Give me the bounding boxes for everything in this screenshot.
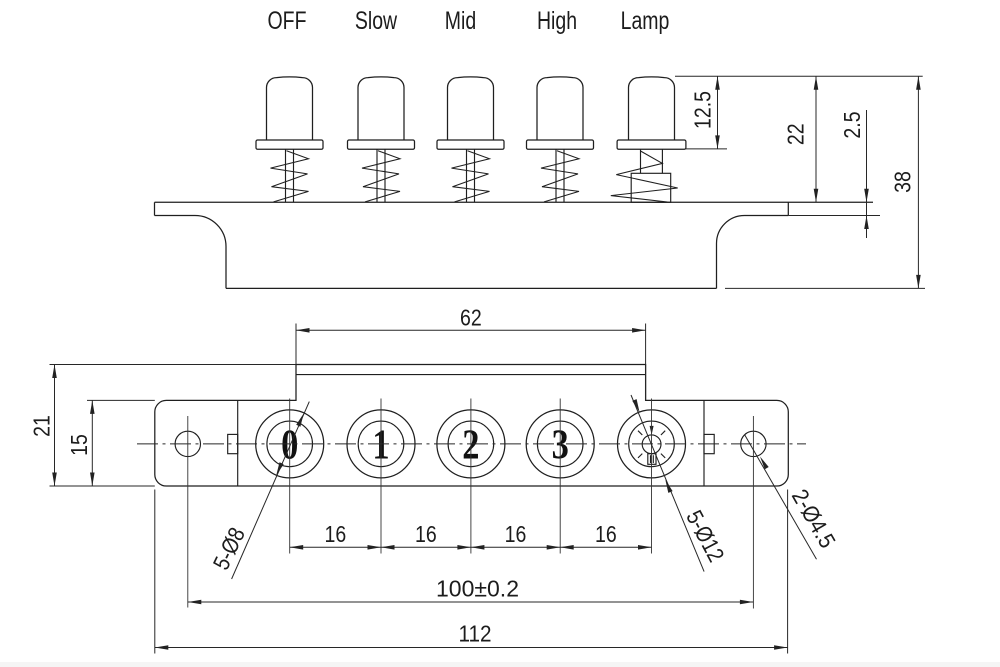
button Slow inner circle xyxy=(358,421,404,467)
extension line flange bottom xyxy=(686,148,727,150)
numeral 2 xyxy=(462,422,479,468)
footer strip xyxy=(0,662,1000,667)
numeral 1 xyxy=(372,422,389,468)
numeral 0 xyxy=(281,422,298,468)
numeral 3 xyxy=(552,422,569,468)
button Lamp inner circle xyxy=(629,421,675,467)
plate left end xyxy=(155,202,196,215)
button Slow flange xyxy=(348,140,415,149)
extension line plate bottom right xyxy=(788,215,880,217)
svg-text:Lamp: Lamp xyxy=(621,7,670,35)
lamp pointer arrow xyxy=(650,426,654,435)
label High xyxy=(537,7,577,35)
button Slow cap xyxy=(358,77,404,140)
svg-text:16: 16 xyxy=(415,522,437,548)
leader 2-dia-4.5 xyxy=(745,435,842,560)
button OFF spring xyxy=(271,151,309,202)
dimension 100 xyxy=(188,576,754,605)
horizontal centerline xyxy=(137,443,806,445)
left tab xyxy=(228,434,238,453)
button Lamp cap xyxy=(629,77,675,140)
dimension 2.5 xyxy=(840,110,869,238)
svg-text:16: 16 xyxy=(325,522,347,548)
label Lamp xyxy=(621,7,670,35)
svg-text:Mid: Mid xyxy=(445,7,476,35)
mounting plate top line xyxy=(155,201,874,203)
dimension 62 xyxy=(296,305,646,400)
svg-text:16: 16 xyxy=(595,522,617,548)
dimension 22 xyxy=(783,76,818,202)
hole centerline left xyxy=(187,416,189,608)
label OFF xyxy=(268,7,307,35)
button Slow stem xyxy=(377,149,385,202)
extension line top (cap top plane) xyxy=(675,75,923,77)
button OFF outer circle xyxy=(256,410,324,478)
button Slow outer circle xyxy=(347,410,415,478)
dimension 15 xyxy=(67,400,155,486)
button Lamp stem xyxy=(641,149,663,173)
dimension 21 xyxy=(29,365,296,487)
button OFF cap xyxy=(267,77,313,140)
svg-text:62: 62 xyxy=(460,305,482,331)
svg-text:100±0.2: 100±0.2 xyxy=(436,576,519,602)
svg-text:Slow: Slow xyxy=(355,7,398,35)
button Mid outer circle xyxy=(437,410,505,478)
plate right shoulder xyxy=(717,216,789,289)
plate left shoulder xyxy=(195,216,226,289)
svg-text:112: 112 xyxy=(459,620,492,646)
extension line body bottom right xyxy=(725,287,925,289)
left mounting hole xyxy=(175,431,200,456)
dimension 16 chain xyxy=(290,522,652,550)
lamp bulb circle xyxy=(642,435,661,454)
lamp base xyxy=(648,454,656,465)
button High spring xyxy=(541,151,579,202)
svg-text:5-Ø12: 5-Ø12 xyxy=(681,506,729,566)
svg-text:High: High xyxy=(537,7,577,35)
right tab xyxy=(704,434,714,453)
dimension 112 xyxy=(155,490,788,654)
button OFF inner circle xyxy=(267,421,313,467)
button Mid cap xyxy=(448,77,494,140)
panel raised step line xyxy=(296,374,646,376)
panel outline xyxy=(155,365,789,487)
dimension 12.5 xyxy=(690,76,720,149)
button vertical centerlines xyxy=(290,399,652,554)
svg-text:2.5: 2.5 xyxy=(840,111,866,138)
button Mid flange xyxy=(437,140,504,149)
svg-text:15: 15 xyxy=(67,434,93,456)
button Mid spring xyxy=(452,151,490,202)
button Lamp outer circle xyxy=(618,410,686,478)
button High outer circle xyxy=(526,410,594,478)
plate body bottom xyxy=(226,287,717,289)
button High stem xyxy=(556,149,564,202)
leader 5-dia-8 xyxy=(208,402,309,579)
hole centerline right xyxy=(752,416,754,609)
button Mid inner circle xyxy=(448,421,494,467)
svg-text:38: 38 xyxy=(890,171,916,193)
button Slow spring xyxy=(362,151,400,202)
button Mid stem xyxy=(467,149,475,202)
button OFF flange xyxy=(256,140,323,149)
button Lamp spring xyxy=(611,151,678,202)
dimension 38 xyxy=(890,76,921,288)
button High inner circle xyxy=(537,421,583,467)
button Lamp flange xyxy=(617,140,686,149)
button High cap xyxy=(537,77,583,140)
right mounting hole xyxy=(741,431,766,456)
svg-text:2-Ø4.5: 2-Ø4.5 xyxy=(787,485,841,553)
label Slow xyxy=(355,7,398,35)
svg-text:21: 21 xyxy=(29,415,55,437)
svg-text:12.5: 12.5 xyxy=(690,91,716,129)
button High flange xyxy=(527,140,594,149)
button OFF stem xyxy=(286,149,294,202)
button Lamp body box xyxy=(631,173,671,202)
lamp rays xyxy=(638,431,665,458)
svg-text:OFF: OFF xyxy=(268,7,307,35)
plate right end tick xyxy=(787,202,789,215)
svg-text:5-Ø8: 5-Ø8 xyxy=(208,524,250,574)
leader 5-dia-12 xyxy=(631,395,729,572)
svg-text:16: 16 xyxy=(505,522,527,548)
panel inner edge left xyxy=(237,400,239,486)
panel inner edge right xyxy=(703,400,705,486)
label Mid xyxy=(445,7,476,35)
svg-text:22: 22 xyxy=(783,123,809,145)
